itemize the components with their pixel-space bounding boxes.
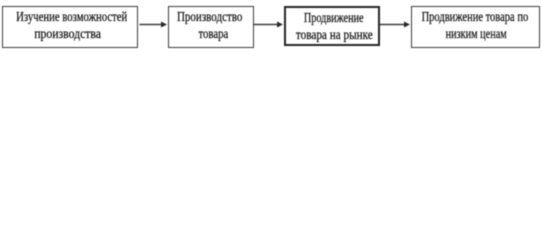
box 3: Продвижение товара на рынке (bold border) [284,6,380,46]
arrow 2 [254,20,284,29]
arrow 1 [138,20,168,29]
box 2: Производство товара [168,6,255,48]
box 4: Продвижение товара по низким ценам [411,6,540,48]
arrow 3 [380,20,411,29]
box 1: Изучение возможностей производства [2,6,139,48]
